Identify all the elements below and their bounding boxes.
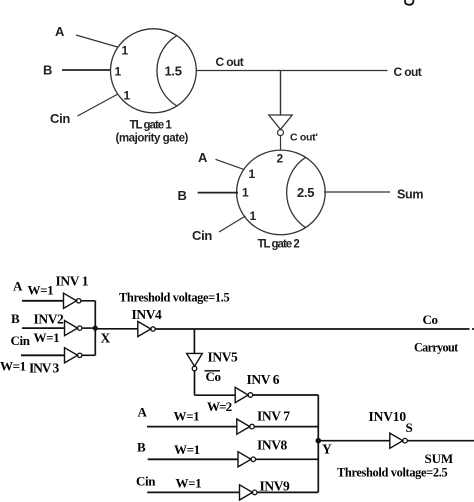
wire Co main <box>155 328 469 330</box>
wire B to INV8 <box>148 458 238 460</box>
svg-text:1: 1 <box>122 44 129 58</box>
wire Co end dash <box>472 328 474 330</box>
svg-text:2.5: 2.5 <box>297 185 314 200</box>
INV3 bubble <box>78 353 82 357</box>
svg-text:(majority gate): (majority gate) <box>116 132 189 145</box>
svg-text:1: 1 <box>242 186 249 200</box>
wire INV6 out <box>253 394 319 396</box>
svg-text:B: B <box>178 188 187 203</box>
svg-text:W=1: W=1 <box>0 359 26 374</box>
inverter INV7 triangle <box>237 419 250 434</box>
inverter INV2 triangle <box>65 321 78 336</box>
svg-text:W=1: W=1 <box>174 442 200 457</box>
wire inverter to TL gate 2 <box>280 136 282 150</box>
inverter INV10 triangle <box>390 433 403 448</box>
svg-text:INV 7: INV 7 <box>257 409 290 424</box>
svg-text:Y: Y <box>322 442 332 457</box>
svg-text:1: 1 <box>124 89 131 103</box>
svg-text:C out: C out <box>394 65 422 79</box>
INV9 bubble <box>252 490 257 495</box>
svg-text:B: B <box>43 63 52 78</box>
caption fragment g <box>405 0 413 5</box>
wire INV2 out <box>82 327 95 329</box>
INV6 bubble <box>248 393 253 398</box>
inverter (C out to C out') triangle <box>269 115 292 130</box>
svg-text:W=1: W=1 <box>174 409 200 424</box>
INV7 bubble <box>250 424 255 429</box>
svg-text:A: A <box>13 279 23 294</box>
wire Sum <box>324 191 390 193</box>
svg-text:C out': C out' <box>290 132 318 144</box>
inverter INV6 triangle <box>235 387 248 402</box>
bus X vertical <box>94 301 96 356</box>
wire Cin to TL gate 1 <box>78 94 119 116</box>
wire Y to INV10 <box>318 440 390 442</box>
wire A to TL gate 1 <box>76 35 118 47</box>
INV10 bubble <box>403 438 408 443</box>
svg-text:1: 1 <box>249 167 256 181</box>
wire S out <box>407 440 474 442</box>
svg-text:A: A <box>198 150 208 165</box>
TL gate 1 threshold arc <box>157 36 177 106</box>
svg-text:B: B <box>137 440 146 455</box>
wire INV5 out down <box>194 371 196 395</box>
wire Cin to INV3 <box>21 354 65 356</box>
svg-text:INV2: INV2 <box>34 312 65 327</box>
svg-text:Cin: Cin <box>192 228 212 243</box>
wire A to INV7 <box>147 426 237 428</box>
svg-text:INV 6: INV 6 <box>247 372 280 387</box>
inverter INV9 triangle <box>240 485 253 500</box>
svg-text:TL gate 1: TL gate 1 <box>130 120 173 132</box>
inverter INV3 triangle <box>65 348 78 363</box>
svg-text:Cin: Cin <box>50 111 70 126</box>
node X junction dot <box>93 326 98 331</box>
inverter INV8 triangle <box>238 452 251 467</box>
svg-text:Cin: Cin <box>11 333 31 348</box>
wire X to INV4 <box>95 328 138 330</box>
svg-text:INV4: INV4 <box>132 307 163 322</box>
INV1 bubble <box>77 299 81 303</box>
inverter INV4 triangle <box>138 321 151 336</box>
TL gate 1 body <box>110 29 196 113</box>
TL gate 2 threshold arc <box>287 157 306 227</box>
svg-text:W=1: W=1 <box>176 475 202 490</box>
svg-text:TL gate 2: TL gate 2 <box>258 239 300 251</box>
wire INV1 out <box>81 300 95 302</box>
svg-text:INV 1: INV 1 <box>56 273 89 288</box>
wire junction to inverter <box>280 71 282 116</box>
svg-text:SUM: SUM <box>425 451 454 466</box>
svg-text:Co: Co <box>206 369 221 384</box>
node Y junction dot <box>316 438 322 444</box>
wire INV9 out <box>257 491 318 493</box>
svg-text:W=1: W=1 <box>34 330 60 345</box>
wire B to TL gate 2 <box>198 192 238 194</box>
svg-text:B: B <box>11 311 20 326</box>
TL gate 2 body <box>237 150 326 235</box>
wire Co to INV5 <box>193 329 195 354</box>
svg-text:INV10: INV10 <box>369 409 407 424</box>
INV2 bubble <box>78 326 82 330</box>
wire A to TL gate 2 <box>216 159 245 169</box>
svg-text:Co: Co <box>423 312 438 327</box>
inverter INV1 triangle <box>64 293 77 308</box>
wire B to TL gate 1 <box>62 69 111 71</box>
svg-text:A: A <box>138 404 148 419</box>
svg-text:INV5: INV5 <box>208 350 239 365</box>
svg-text:INV8: INV8 <box>257 438 288 453</box>
svg-text:INV9: INV9 <box>260 479 291 494</box>
wire Cin to INV9 <box>147 491 239 493</box>
svg-text:Threshold voltage=2.5: Threshold voltage=2.5 <box>337 466 447 480</box>
svg-text:1: 1 <box>250 209 257 223</box>
inverter bubble <box>278 130 284 136</box>
net label Co-bar overline <box>205 370 221 372</box>
svg-text:S: S <box>406 420 413 435</box>
wire INV3 out <box>82 354 95 356</box>
inverter INV5 triangle (down) <box>187 353 203 366</box>
svg-text:Sum: Sum <box>397 188 423 202</box>
svg-text:2: 2 <box>277 152 284 166</box>
svg-text:INV 3: INV 3 <box>29 361 59 376</box>
wire B to INV2 <box>22 327 65 329</box>
svg-text:Threshold voltage=1.5: Threshold voltage=1.5 <box>119 291 229 305</box>
svg-text:W=1: W=1 <box>28 283 54 298</box>
svg-text:Cin: Cin <box>136 474 156 489</box>
svg-text:A: A <box>55 24 65 39</box>
svg-text:1.5: 1.5 <box>165 64 182 79</box>
svg-text:X: X <box>101 331 111 346</box>
INV8 bubble <box>251 457 256 462</box>
bus Y vertical <box>317 395 319 492</box>
wire C out <box>197 70 388 72</box>
wire Cin to TL gate 2 <box>219 216 246 232</box>
wire INV7 out <box>254 426 318 428</box>
svg-text:C out: C out <box>216 55 244 69</box>
INV5 bubble <box>192 366 197 371</box>
svg-text:1: 1 <box>115 65 122 79</box>
wire INV8 out <box>256 458 319 460</box>
svg-text:W=2: W=2 <box>207 399 232 414</box>
wire INV5 to INV6 <box>195 394 236 396</box>
svg-text:Carryout: Carryout <box>414 340 458 354</box>
wire A to INV1 <box>22 300 64 302</box>
INV4 bubble <box>151 327 155 331</box>
